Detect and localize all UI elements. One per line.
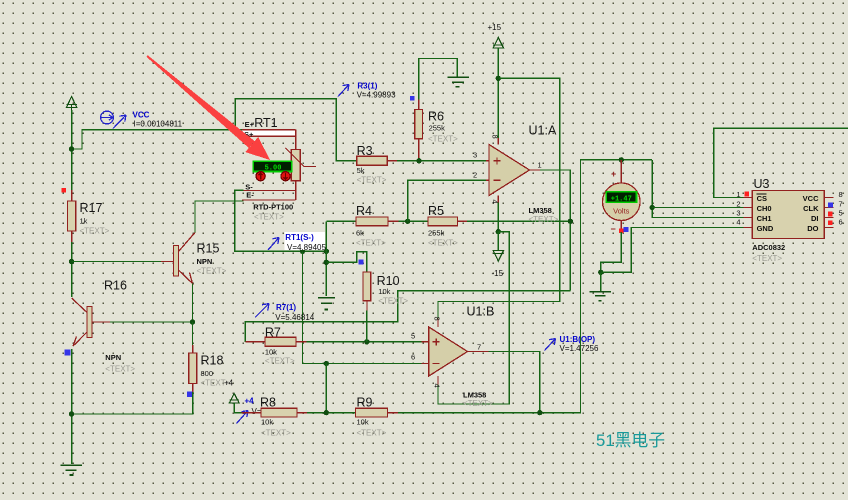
svg-text:CS: CS [757, 194, 767, 203]
wire: VCC feed from rail to RT1 E+ [72, 130, 242, 149]
junction feedback column / R8 R9 [324, 410, 329, 415]
svg-text:E+: E+ [245, 120, 255, 129]
svg-text:R7: R7 [265, 325, 281, 339]
svg-text:CH1: CH1 [757, 214, 772, 223]
wire: CS from top right [714, 128, 848, 197]
red pin marker U3 pin5 [828, 212, 833, 217]
svg-text:LM358: LM358 [529, 206, 552, 215]
svg-text:U1:B(OP): U1:B(OP) [560, 335, 596, 344]
IC U3 ADC0832 [743, 191, 833, 239]
svg-text:2: 2 [473, 170, 477, 179]
transistor R16 (NPN) [72, 298, 110, 346]
svg-text:R4: R4 [356, 204, 372, 218]
svg-text:+: + [611, 169, 616, 179]
svg-text:I=0.00104811: I=0.00104811 [134, 120, 183, 129]
svg-text:R18: R18 [201, 354, 224, 368]
wire: +15 over to U1:B pin8 [438, 78, 560, 318]
svg-text:<TEXT>: <TEXT> [752, 254, 782, 263]
red pin marker U3 pin6 [828, 220, 833, 225]
resistor R17 [68, 190, 76, 242]
wire: R4 row left [326, 220, 356, 222]
wire: R5 to U1:A output column [467, 220, 571, 222]
svg-text:RT1: RT1 [254, 116, 277, 130]
svg-text:−: − [611, 224, 616, 234]
svg-text:U1:A: U1:A [529, 124, 557, 138]
junction -15 node [496, 229, 501, 234]
red pin marker near R17 top [61, 188, 66, 193]
svg-text:V=4.89405: V=4.89405 [287, 243, 326, 252]
RT1 sensing element (resistor) [291, 150, 300, 181]
svg-text:R6: R6 [428, 110, 444, 124]
current probe on VCC wire [101, 111, 126, 128]
svg-text:R9: R9 [357, 395, 373, 409]
svg-text:U1:B: U1:B [467, 305, 495, 319]
voltmeter VM1 [603, 160, 641, 232]
wire: rail below R17 [71, 242, 73, 297]
wire: output over to R7 [245, 291, 570, 342]
junction output/R5 row [568, 219, 573, 224]
junction S- row / R4-ground column [324, 249, 329, 254]
resistor R3 [357, 156, 398, 165]
resistor R7 [245, 337, 306, 346]
wire: U1:B output down to feedback row [489, 352, 540, 413]
junction rail / R15 base wire [69, 259, 74, 264]
svg-text:3: 3 [473, 150, 477, 159]
svg-text:U3: U3 [754, 177, 770, 191]
svg-text:R16: R16 [104, 279, 127, 293]
svg-text:255k: 255k [429, 124, 446, 133]
svg-text:5.00: 5.00 [265, 164, 282, 172]
junction ground rail / R18 return [69, 411, 74, 416]
RT1 up button [256, 172, 265, 181]
svg-text:<TEXT>: <TEXT> [529, 215, 559, 224]
svg-text:<TEXT>: <TEXT> [463, 399, 493, 408]
svg-text:E-: E- [246, 190, 254, 199]
probe +4 arrow [237, 411, 249, 424]
svg-text:DO: DO [807, 224, 818, 233]
blue pin marker near R18 bottom [187, 392, 192, 397]
resistor R6 [415, 100, 423, 161]
red pin marker at voltmeter minus [619, 229, 624, 234]
probe R3(1) arrow [338, 85, 349, 97]
svg-text:R15: R15 [197, 242, 220, 256]
red annotation arrow [146, 55, 270, 160]
wire: R3 to U1:A pin3 [397, 160, 486, 162]
wire: R18 bottom to ground rail [72, 392, 193, 414]
junction R6 bottom on pin3 row [416, 158, 421, 163]
svg-text:800: 800 [201, 369, 214, 378]
svg-text:RT1(S-): RT1(S-) [285, 233, 314, 242]
svg-text:-15: -15 [492, 269, 504, 278]
op-amp U1:B [421, 318, 488, 384]
probe R7(1) arrow [255, 304, 269, 318]
wire: R16 base to junction [110, 321, 193, 323]
wire: R15 emitter down [192, 284, 194, 323]
wire: column to U1:B pin6 row [303, 251, 422, 363]
wire: main left vertical rail x=71.6 [71, 110, 73, 190]
junction at rail/VCC feed [69, 146, 74, 151]
svg-text:7: 7 [839, 200, 843, 209]
junction pin6 row / feedback column [324, 361, 329, 366]
svg-text:4: 4 [433, 384, 442, 388]
svg-text:<TEXT>: <TEXT> [357, 175, 387, 184]
svg-text:7: 7 [477, 342, 481, 351]
probe RT1(S-) arrow [268, 238, 279, 251]
svg-text:V=1.47256: V=1.47256 [560, 344, 599, 353]
wire: voltmeter column down to CH0 CH1 [652, 160, 743, 218]
resistor R8 [241, 408, 307, 417]
svg-text:DI: DI [811, 214, 819, 223]
svg-text:10k: 10k [265, 347, 277, 356]
svg-text:10k: 10k [357, 417, 369, 426]
junction U1:B output / R9 row [537, 410, 542, 415]
wire: R18 top from junction [192, 322, 194, 345]
svg-text:10k: 10k [378, 287, 390, 296]
ground (bottom left) [61, 465, 82, 475]
resistor R10 [363, 272, 371, 342]
svg-text:V=5.46814: V=5.46814 [275, 313, 314, 322]
svg-text:<TEXT>: <TEXT> [105, 365, 135, 374]
wire: R15 collector up [195, 201, 243, 233]
power terminal -15 (down arrow) [493, 232, 503, 261]
wire: R4 left column down to ground [325, 221, 327, 295]
RT1 display window 5.00 [253, 161, 291, 172]
wire: base wire to R15 [72, 261, 161, 263]
svg-text:3: 3 [736, 209, 740, 218]
wire: S- route down and right [235, 190, 326, 251]
svg-text:V=4.99893: V=4.99893 [357, 90, 396, 99]
svg-text:VCC: VCC [133, 111, 150, 120]
svg-text:R7(1): R7(1) [276, 303, 296, 312]
svg-text:51黑电子: 51黑电子 [596, 431, 665, 450]
svg-text:<TEXT>: <TEXT> [428, 238, 458, 247]
wire: R4 to R5 [398, 220, 428, 222]
wire: R9 to output node and voltmeter column [398, 160, 652, 413]
resistor R18 [189, 345, 197, 392]
svg-text:5: 5 [839, 209, 843, 218]
power terminal VCC arrow (top left) [66, 97, 76, 111]
junction R10 jog / column [324, 260, 329, 265]
svg-text:<TEXT>: <TEXT> [357, 429, 387, 438]
svg-text:+1.47: +1.47 [611, 195, 632, 203]
svg-text:<TEXT>: <TEXT> [356, 238, 386, 247]
svg-text:2: 2 [736, 200, 740, 209]
svg-text:10k: 10k [261, 417, 273, 426]
svg-text:5k: 5k [357, 166, 365, 175]
wire: E+ node up and over to R3 [235, 99, 356, 161]
wire: +15 rail down to U1:A pin8 [497, 78, 499, 138]
svg-text:ADC0832: ADC0832 [752, 243, 785, 252]
wire: feedback column to R8/R9 node [325, 364, 327, 413]
svg-text:1: 1 [538, 161, 542, 170]
blue pin marker U3 pin7 [828, 203, 833, 208]
wire: R6 top to ground [419, 59, 458, 100]
svg-text:NPN: NPN [197, 257, 213, 266]
svg-text:R5: R5 [428, 204, 444, 218]
junction R15 emitter / R16 base / R18 [190, 319, 195, 324]
wire: jog to R10 top [326, 252, 367, 272]
svg-text:R8: R8 [260, 395, 276, 409]
svg-text:GND: GND [757, 224, 774, 233]
svg-text:1: 1 [736, 190, 740, 199]
wire: R8 to R9 [307, 412, 356, 414]
svg-text:1k: 1k [80, 217, 88, 226]
wire: U1:A output [540, 170, 570, 291]
op-amp U1:A [486, 138, 540, 203]
junction R4/R5/pin2 [405, 219, 410, 224]
junction voltmeter + pin [619, 157, 624, 162]
svg-text:<TEXT>: <TEXT> [265, 357, 295, 366]
svg-text:8: 8 [433, 317, 442, 321]
wire: junction up to U1:A pin2 [408, 180, 486, 221]
wire: ground over to ADC GND pin [601, 228, 744, 273]
junction CH0 branch [650, 205, 655, 210]
svg-text:<TEXT>: <TEXT> [378, 296, 408, 305]
wire: U1:A pin4 down [497, 203, 499, 232]
svg-text:+15: +15 [488, 23, 502, 32]
blue pin marker near R6 top [410, 96, 415, 101]
wire: ground stem [600, 272, 602, 290]
svg-text:4: 4 [736, 218, 740, 227]
svg-text:CH0: CH0 [757, 204, 772, 213]
svg-text:6: 6 [411, 352, 415, 361]
power terminal +4 (up arrow) [229, 394, 239, 413]
wire: R7 to U1:B pin5 [307, 341, 422, 343]
red pin marker U3 pin1 [744, 192, 749, 197]
svg-text:RTD-PT100: RTD-PT100 [253, 202, 293, 211]
svg-text:VCC: VCC [803, 194, 819, 203]
junction VCC feed / R3 branch [233, 127, 238, 132]
svg-text:R17: R17 [80, 201, 103, 215]
svg-text:Volts: Volts [613, 206, 630, 215]
svg-text:5: 5 [411, 331, 415, 340]
ground (top, near R6) [448, 77, 470, 87]
wire: -15 node to U1:B pin4 [438, 232, 509, 404]
svg-text:<TEXT>: <TEXT> [80, 227, 110, 236]
blue pin marker at voltmeter minus [623, 227, 628, 232]
svg-text:R3(1): R3(1) [357, 81, 377, 90]
resistor R5 [428, 217, 467, 226]
svg-text:<TEXT>: <TEXT> [197, 266, 227, 275]
probe U1:B(OP) arrow [545, 339, 556, 351]
junction R10 bottom / pin5 row [364, 339, 369, 344]
junction +15 branch [496, 76, 501, 81]
svg-text:255k: 255k [428, 228, 445, 237]
junction ground node [598, 270, 603, 275]
svg-text:6: 6 [839, 218, 843, 227]
wire: +4 terminal to R8 [234, 412, 241, 414]
svg-text:+4: +4 [245, 396, 255, 405]
blue pin marker at R10 top [359, 259, 364, 264]
RT1 wiper arrow [286, 148, 316, 167]
blue pin marker at R16 emitter [65, 350, 71, 356]
svg-text:8: 8 [839, 190, 843, 199]
ground (voltmeter) [590, 292, 612, 301]
resistor R4 [356, 217, 398, 226]
junction S- row / pin6 column [300, 249, 305, 254]
svg-text:<TEXT>: <TEXT> [254, 213, 284, 222]
svg-text:<TEXT>: <TEXT> [261, 429, 291, 438]
wire: rail below R16 emitter down to ground [71, 349, 73, 464]
svg-text:NPN: NPN [105, 353, 121, 362]
svg-text:+4: +4 [224, 378, 234, 387]
ground (below R4 column) [318, 298, 335, 310]
svg-text:R3: R3 [357, 144, 373, 158]
probe RT1(S-) label box [285, 232, 326, 250]
power terminal +15 [493, 38, 503, 79]
svg-text:6k: 6k [356, 228, 364, 237]
svg-text:CLK: CLK [803, 204, 819, 213]
wire: CH0 branch [652, 207, 743, 209]
transistor R15 (NPN) [161, 233, 195, 284]
resistor R9 [356, 408, 399, 417]
wire: voltmeter minus to ground [601, 232, 622, 272]
svg-text:<TEXT>: <TEXT> [428, 135, 458, 144]
RTD sensor RT1 body lines [242, 130, 296, 200]
RT1 down button [281, 172, 290, 181]
